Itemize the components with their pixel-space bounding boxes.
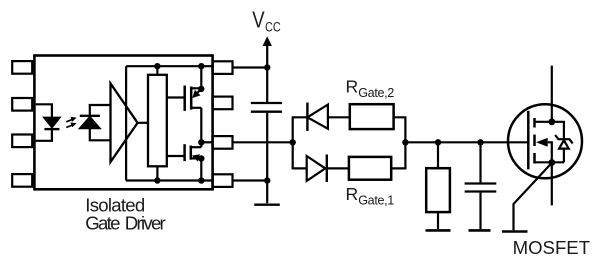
wire to damping resistor — [437, 142, 439, 168]
source terminal bar — [502, 230, 528, 233]
node Q1 body — [198, 86, 204, 92]
node gate cap tap — [477, 139, 483, 145]
node right of diode network — [402, 139, 408, 145]
pin 1 (left row1) — [12, 61, 32, 74]
photodiode of optocoupler — [90, 105, 111, 140]
wire LED cathode to pin3 — [36, 129, 52, 141]
node left of diode network — [290, 139, 296, 145]
pin 7 (right row2) — [213, 97, 233, 110]
svg-text:MOSFET: MOSFET — [513, 237, 590, 258]
ground — [469, 229, 491, 232]
pin 8 (right row1) — [213, 61, 233, 74]
wire R_Gate,1 to right node — [391, 142, 405, 168]
node top rail / Q1 drain — [198, 63, 204, 69]
node bottom rail / Q2 — [198, 177, 204, 183]
wire to top branch — [293, 117, 307, 142]
pin 2 (left row2) — [12, 98, 32, 111]
wire pin5 to ground rail — [233, 179, 268, 181]
wire pin6 output to diode network — [233, 141, 293, 143]
node Q2 source — [198, 155, 204, 161]
pin 5 (right row4) — [213, 174, 233, 187]
wire to bottom branch — [293, 142, 307, 168]
node top rail / driver — [154, 63, 160, 69]
node Vcc / pin8 — [264, 64, 270, 70]
wire Vcc down to cap — [266, 44, 268, 102]
wire internal top rail — [126, 65, 212, 67]
capacitor C1 decoupling — [251, 102, 282, 104]
wire MOSFET source lead diagonal — [514, 163, 552, 230]
wire output to pin 6 — [201, 141, 212, 143]
wire to gate cap — [479, 142, 481, 182]
wire diode to R_Gate,1 — [327, 167, 349, 169]
driver block U2 — [148, 75, 167, 167]
op-amp U1 gate driver IC body — [34, 56, 212, 190]
node ground / pin5 — [264, 177, 270, 183]
diode D2 (turn-off path) — [306, 103, 308, 132]
LED D_led of optocoupler — [44, 118, 59, 127]
wire MOSFET source stub — [551, 163, 553, 206]
light emission arrows — [66, 117, 76, 128]
resistor R2 damping — [426, 168, 450, 212]
pin 3 (left row3) — [12, 135, 32, 148]
wire LED anode from pin2 — [36, 104, 52, 117]
wire resistor to ground — [437, 212, 439, 229]
op-amp A1 receiver amplifier — [111, 84, 138, 163]
node bottom rail / driver — [154, 177, 160, 183]
node output — [198, 139, 204, 145]
transistor Q1 high-side MOSFET — [167, 66, 202, 142]
wire driver block to bottom rail — [156, 166, 158, 180]
wire gate line to MOSFET — [405, 141, 528, 143]
wire cap to ground — [266, 113, 268, 203]
transistor Q3 power MOSFET — [508, 66, 582, 179]
capacitor C2 gate — [465, 182, 497, 184]
wire internal supply left vertical — [125, 66, 127, 180]
Vcc supply arrow — [263, 36, 272, 46]
svg-text:Gate Driver: Gate Driver — [85, 213, 165, 234]
wire R_Gate,2 to right node — [394, 117, 406, 142]
wire amp output to driver block — [138, 122, 148, 124]
diode D1 (turn-on path) — [307, 156, 326, 181]
wire internal bottom rail — [126, 179, 212, 181]
wire pin8 to Vcc rail — [233, 66, 268, 68]
wire cap to ground — [479, 193, 481, 230]
wire diode to R_Gate,2 — [328, 116, 350, 118]
ground — [254, 203, 279, 205]
node damping resistor tap — [435, 139, 441, 145]
pin 4 (left row4) — [12, 174, 32, 187]
pin 6 (right row3) — [213, 136, 233, 149]
ground — [426, 229, 451, 232]
resistor R_Gate,2 — [350, 104, 394, 129]
transistor Q2 low-side MOSFET — [167, 142, 202, 180]
resistor R_Gate,1 — [349, 157, 391, 180]
wire driver block to top rail — [156, 66, 158, 75]
